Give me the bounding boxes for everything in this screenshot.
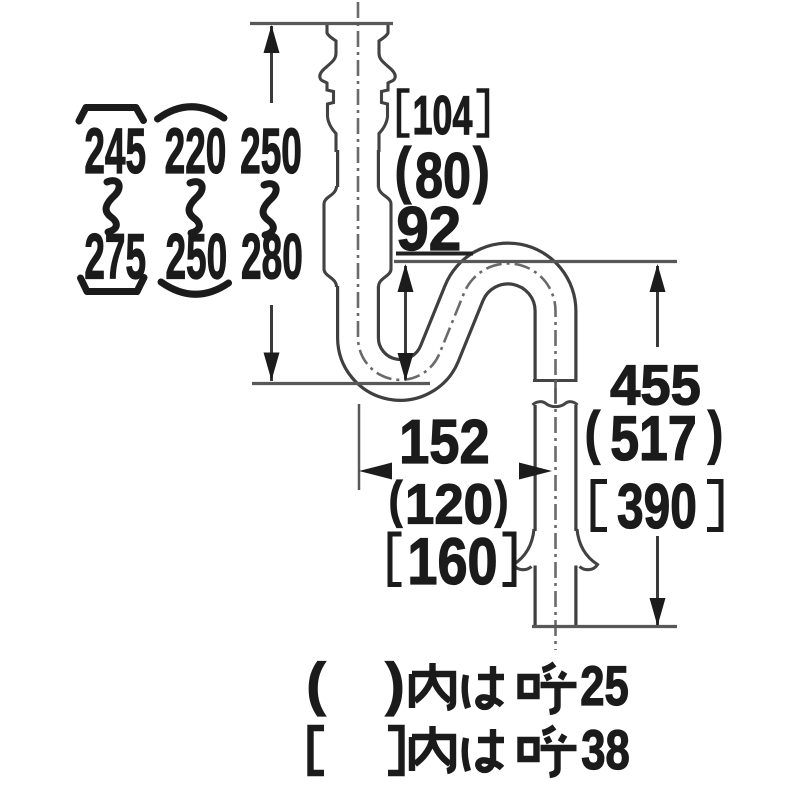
svg-text:(: ( <box>389 471 403 528</box>
svg-text:): ) <box>385 652 404 717</box>
svg-text:92: 92 <box>396 194 461 263</box>
svg-text:275: 275 <box>84 222 146 293</box>
svg-text:152: 152 <box>399 408 490 477</box>
svg-text:): ) <box>495 471 509 528</box>
svg-text:160: 160 <box>407 524 497 598</box>
svg-text:220: 220 <box>165 116 227 187</box>
svg-text:): ) <box>473 135 490 205</box>
svg-text:517: 517 <box>610 404 697 474</box>
svg-text:38: 38 <box>581 719 630 781</box>
svg-text:250: 250 <box>240 116 302 187</box>
svg-text:): ) <box>708 401 723 466</box>
svg-text:(: ( <box>306 652 326 717</box>
svg-text:(: ( <box>585 401 601 466</box>
svg-text:104: 104 <box>413 84 473 146</box>
svg-text:390: 390 <box>617 471 697 542</box>
svg-text:25: 25 <box>580 655 629 717</box>
svg-text:245: 245 <box>84 116 146 187</box>
